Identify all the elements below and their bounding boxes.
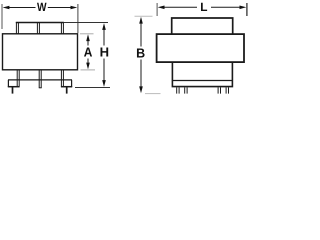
front view: middle pin pair [38,70,40,88]
side view: bottom flange [172,63,232,87]
dimension H: bottom extension line [75,87,110,89]
dimension L: line and arrows [163,6,197,8]
dimension A: line and arrows [87,40,89,46]
dimension A: top extension line [80,33,94,35]
side view: bottom flange inner line [172,80,233,82]
side view: main body [157,34,244,62]
bobbin left flange pair [15,22,17,34]
dimension H: label [101,48,109,57]
front view: left foot [7,80,9,87]
transformer front view: body outline [3,34,78,70]
bobbin right flange pair [60,22,62,34]
dimension L: right extension line [246,3,248,16]
dimension B: top extension line [135,15,153,17]
side view: pin 4 [225,87,227,93]
dimension W: left extension line [1,4,3,29]
dimension H: line and arrows [103,29,105,46]
dimension B: line and arrows [140,23,142,47]
side view: pin 2 [184,87,186,93]
front view: left pin pair [16,70,18,87]
svg-text:B: B [136,46,145,60]
dimension L: label [201,3,207,11]
transformer front view: bobbin top edge [16,22,64,24]
dimension H: top extension line [64,22,108,24]
transformer side view: top flange [172,18,233,34]
front view: right solder tip [66,87,68,94]
dimension W: right extension line [77,4,79,33]
dimension W: line and arrows [8,7,36,9]
dimension L: left extension line [156,3,158,16]
bobbin middle flange pair [36,22,38,34]
dimension A: label [84,48,92,57]
dimension B: bottom extension line [145,93,161,95]
dimension W: label [37,3,47,11]
front view: right pin pair [60,70,62,87]
side view: pin 1 [176,87,178,93]
front view: mounting bar [8,79,72,81]
side view: pin 3 [217,87,219,93]
dimension A: bottom extension line [81,69,96,71]
front view: left solder tip [12,87,14,94]
front view: right foot [71,80,73,87]
